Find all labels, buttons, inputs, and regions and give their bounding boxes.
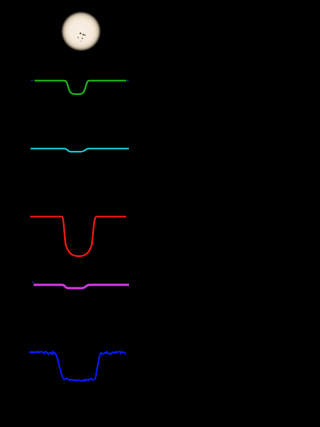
- jpeg artifact speck right of green line: [127, 80, 129, 81]
- jpeg artifact speck left of green line: [31, 80, 33, 81]
- cyan light curve: [31, 149, 129, 152]
- starspot pair right: [82, 34, 84, 36]
- starspot tiny bottom: [80, 41, 81, 42]
- starspot faint lower: [82, 38, 84, 39]
- jpeg artifact speck left of magenta line: [32, 282, 34, 283]
- star disk with limb darkening: [61, 11, 101, 51]
- starspot faint left: [77, 37, 78, 38]
- blue noisy light curve (data points): [30, 352, 126, 382]
- green light curve: [35, 81, 127, 95]
- magenta light curve halo: [34, 285, 130, 288]
- magenta light curve: [34, 285, 130, 288]
- starspot group center: [80, 33, 82, 35]
- red light curve: [30, 217, 126, 257]
